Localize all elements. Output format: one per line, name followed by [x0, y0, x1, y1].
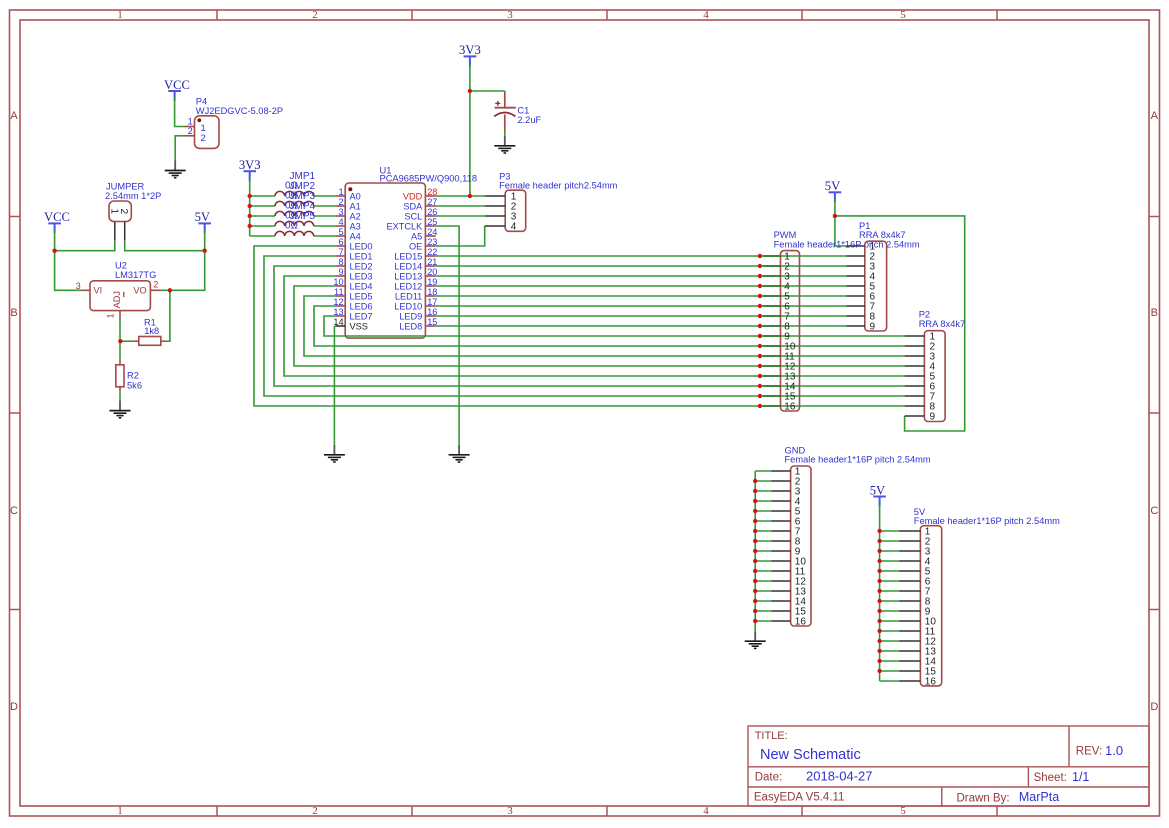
svg-text:LED9: LED9	[399, 312, 422, 322]
svg-text:EasyEDA V5.4.11: EasyEDA V5.4.11	[754, 792, 845, 804]
wire VCC to P4 pin 1	[175, 98, 185, 127]
junction node 5V bus	[877, 549, 881, 553]
junction node ADJ/R1/R2	[118, 339, 122, 343]
junction node GND bus	[753, 549, 757, 553]
svg-text:2.54mm 1*2P: 2.54mm 1*2P	[105, 191, 161, 201]
ground (GND header)	[745, 631, 766, 648]
svg-text:2: 2	[188, 126, 193, 136]
junction node PWM pin	[758, 384, 762, 388]
IC U1 PCA9685PW/Q900,118	[345, 166, 477, 339]
junction node GND bus	[753, 589, 757, 593]
junction node GND bus	[753, 519, 757, 523]
junction node GND bus	[753, 619, 757, 623]
svg-text:P2: P2	[919, 310, 930, 320]
wire VCC down to U2 VI	[55, 251, 82, 291]
U1 pin 23 OE	[409, 237, 437, 252]
wire 3V3 tap to C1	[470, 90, 505, 92]
junction node 5V bus	[877, 609, 881, 613]
inductor jumper JMP2 0 ohm	[275, 181, 316, 206]
junction node 5V bus	[877, 589, 881, 593]
wire LED12 to PWM 4 / P1 5	[436, 285, 847, 287]
svg-text:VCC: VCC	[44, 210, 70, 224]
junction node PWM pin	[758, 274, 762, 278]
svg-text:VO: VO	[133, 286, 146, 296]
ground (C1)	[494, 136, 515, 153]
ground (EXTCLK)	[449, 445, 470, 462]
U1 pin 19 LED12	[394, 277, 437, 292]
capacitor C1 2.2uF	[494, 91, 541, 131]
inductor jumper JMP4 0 ohm	[275, 201, 316, 226]
regulator U2 LM317TG	[76, 261, 161, 321]
junction node GND bus	[753, 579, 757, 583]
svg-text:2: 2	[312, 9, 318, 21]
U1 pin 25 EXTCLK	[387, 217, 438, 232]
wire C1 to ground	[504, 131, 506, 136]
U1 pin 1 A0	[335, 187, 361, 202]
svg-text:LED8: LED8	[399, 322, 422, 332]
U1 pin 4 A3	[335, 217, 361, 232]
svg-text:2: 2	[312, 805, 318, 817]
svg-text:4: 4	[703, 805, 709, 817]
U1 pin 6 LED0	[335, 237, 372, 252]
junction node GND bus	[753, 599, 757, 603]
U1 pin 22 LED15	[394, 247, 437, 262]
svg-text:5V: 5V	[825, 179, 840, 193]
svg-text:VI: VI	[94, 286, 103, 296]
svg-text:B: B	[1151, 307, 1158, 319]
U1 pin 9 LED3	[335, 267, 372, 282]
svg-text:Drawn By:: Drawn By:	[957, 792, 1010, 804]
U1 pin 3 A2	[335, 207, 361, 222]
junction node PWM pin	[758, 324, 762, 328]
svg-text:C: C	[1150, 505, 1158, 517]
wire 3V3 rail down to VDD	[469, 63, 471, 196]
svg-text:New Schematic: New Schematic	[760, 747, 861, 763]
U1 pin 28 VDD	[403, 187, 438, 202]
svg-text:5k6: 5k6	[127, 381, 142, 391]
junction node PWM pin	[758, 374, 762, 378]
svg-text:1: 1	[338, 187, 343, 197]
svg-text:16: 16	[795, 617, 807, 628]
resistor R1 1k8	[134, 317, 166, 345]
svg-text:6: 6	[338, 237, 343, 247]
U1 pin 12 LED6	[333, 297, 372, 312]
junction node 5V bus	[877, 669, 881, 673]
U1 pin 8 LED2	[335, 257, 372, 272]
wire VSS to ground	[333, 326, 335, 445]
U1 pin 24 A5	[411, 227, 437, 242]
svg-text:9: 9	[338, 267, 343, 277]
svg-text:RRA 8x4k7: RRA 8x4k7	[859, 230, 906, 240]
junction node PWM pin	[758, 334, 762, 338]
junction node C1 tap	[468, 89, 472, 93]
junction node PWM pin	[758, 344, 762, 348]
U1 pin 21 LED14	[394, 257, 437, 272]
wire OE to P3 pin4	[436, 226, 485, 246]
junction node PWM pin	[758, 394, 762, 398]
svg-text:Sheet:: Sheet:	[1034, 772, 1067, 784]
svg-text:VCC: VCC	[164, 78, 190, 92]
svg-text:3V3: 3V3	[459, 43, 481, 57]
junction node 3V3 row	[248, 204, 252, 208]
svg-text:D: D	[10, 701, 18, 713]
svg-text:1: 1	[106, 313, 116, 318]
svg-text:A3: A3	[350, 222, 361, 232]
U1 pin 13 LED7	[333, 307, 372, 322]
junction node 5V bus	[877, 559, 881, 563]
junction node GND bus	[753, 609, 757, 613]
svg-text:MarPta: MarPta	[1019, 790, 1059, 804]
svg-text:24: 24	[427, 227, 437, 237]
U1 pin 20 LED13	[394, 267, 437, 282]
svg-text:U2: U2	[115, 261, 127, 271]
svg-text:WJ2EDGVC-5.08-2P: WJ2EDGVC-5.08-2P	[196, 106, 283, 116]
svg-text:8: 8	[338, 257, 343, 267]
svg-text:EXTCLK: EXTCLK	[387, 222, 424, 232]
svg-text:OE: OE	[409, 242, 422, 252]
connector P3 female header 4P	[485, 171, 618, 232]
wire LED5 loop to PWM 11 / P2 3	[304, 296, 905, 356]
ground (P4)	[165, 161, 186, 178]
svg-text:16: 16	[925, 677, 937, 688]
wire 3V3 row to JMP3	[250, 215, 336, 217]
jumper JMP 2.54mm 1*2P	[105, 181, 161, 240]
svg-text:16: 16	[784, 402, 796, 413]
svg-text:0Ω: 0Ω	[285, 221, 299, 232]
U1 pin 27 SDA	[403, 197, 437, 212]
wire LED15 to PWM 1 / P1 2	[436, 255, 847, 257]
svg-text:11: 11	[334, 287, 344, 297]
U1 pin 17 LED10	[394, 297, 437, 312]
junction node 5V bus	[877, 619, 881, 623]
net flag 3V3 (top)	[459, 43, 481, 66]
svg-text:2018-04-27: 2018-04-27	[806, 769, 873, 784]
svg-text:2: 2	[201, 133, 206, 144]
svg-text:LED4: LED4	[350, 282, 373, 292]
connector PWM female header 16P	[763, 230, 920, 412]
connector 5V female header 16P	[899, 507, 1060, 688]
wire R2 to ground	[119, 392, 121, 401]
wire SCL to P3 pin3	[436, 215, 485, 217]
svg-text:JUMPER: JUMPER	[106, 181, 145, 191]
svg-text:Date:: Date:	[755, 772, 783, 784]
svg-text:VDD: VDD	[403, 192, 423, 202]
svg-text:1: 1	[108, 209, 119, 215]
wire 3V3 to jumper rows	[249, 178, 251, 236]
junction node 3V3 row	[248, 194, 252, 198]
junction node GND bus	[753, 539, 757, 543]
junction node 5V bus	[877, 629, 881, 633]
junction node VCC bus	[52, 249, 56, 253]
ground (VSS)	[324, 445, 345, 462]
junction node 5V bus	[877, 649, 881, 653]
svg-text:D: D	[1150, 701, 1158, 713]
svg-text:9: 9	[930, 412, 936, 423]
connector GND female header 16P	[771, 446, 931, 628]
junction node 5V bus	[877, 539, 881, 543]
svg-text:A5: A5	[411, 232, 422, 242]
wire LED7 loop to PWM 9 / P2 1	[324, 316, 905, 336]
svg-text:A: A	[1151, 110, 1159, 122]
svg-text:LED1: LED1	[350, 252, 373, 262]
wire LED10 to PWM 6 / P1 7	[436, 305, 847, 307]
wire 5V loop to P2 pin9	[835, 216, 965, 431]
junction node PWM pin	[758, 364, 762, 368]
svg-text:2: 2	[338, 197, 343, 207]
svg-text:SDA: SDA	[403, 202, 423, 212]
svg-text:LED5: LED5	[350, 292, 373, 302]
junction node GND bus	[753, 559, 757, 563]
junction node VDD	[468, 194, 472, 198]
U1 pin 2 A1	[335, 197, 361, 212]
svg-text:4: 4	[511, 222, 517, 233]
wire LED14 to PWM 2 / P1 3	[436, 265, 847, 267]
junction node GND bus	[753, 529, 757, 533]
svg-text:9: 9	[870, 322, 876, 333]
svg-text:A4: A4	[350, 232, 361, 242]
wire 5V bus to jumper pin2	[125, 231, 205, 251]
svg-text:5: 5	[900, 9, 906, 21]
junction node PWM pin	[758, 254, 762, 258]
svg-text:A0: A0	[350, 192, 361, 202]
junction node VO	[168, 288, 172, 292]
svg-text:RRA 8x4k7: RRA 8x4k7	[919, 319, 966, 329]
svg-text:LED11: LED11	[395, 292, 422, 302]
inductor jumper JMP1 0 ohm	[275, 171, 316, 196]
wire 3V3 row to JMP4	[250, 225, 336, 227]
wire LED0 loop to PWM 16 / P2 8	[254, 246, 905, 406]
svg-text:1/1: 1/1	[1072, 770, 1089, 784]
junction node GND bus	[753, 489, 757, 493]
U1 pin 11 LED5	[334, 287, 372, 302]
svg-text:5: 5	[338, 227, 343, 237]
svg-text:2: 2	[118, 209, 129, 215]
junction node GND bus	[753, 569, 757, 573]
U1 pin 10 LED4	[333, 277, 372, 292]
svg-text:LED15: LED15	[394, 252, 422, 262]
net flag VCC (top)	[164, 78, 190, 101]
wire LED9 to PWM 7 / P1 8	[436, 315, 847, 317]
wire GND header bus	[755, 471, 771, 631]
inductor jumper JMP5 0 ohm	[275, 211, 316, 236]
U1 pin 14 VSS	[333, 317, 368, 332]
svg-text:5V: 5V	[195, 210, 210, 224]
svg-text:3: 3	[76, 281, 81, 291]
junction node 5V bus	[203, 249, 207, 253]
wire LED4 loop to PWM 12 / P2 4	[294, 286, 905, 366]
wire 5V to P1 pin1	[835, 199, 847, 246]
wire 5V down to U2 VO	[161, 251, 205, 291]
junction node 3V3 row	[248, 224, 252, 228]
wire LED1 loop to PWM 15 / P2 7	[264, 256, 905, 396]
wire 3V3 row to JMP2	[250, 205, 336, 207]
U1 pin 16 LED9	[399, 307, 437, 322]
resistor array P2 RRA 8x4k7	[905, 310, 966, 423]
U1 pin 5 A4	[335, 227, 361, 242]
svg-text:3: 3	[507, 9, 513, 21]
svg-text:4: 4	[703, 9, 709, 21]
wire LED2 loop to PWM 14 / P2 6	[274, 266, 905, 386]
wire VCC bus to jumper pin1	[55, 231, 115, 251]
svg-text:1.0: 1.0	[1105, 743, 1123, 758]
svg-text:REV:: REV:	[1076, 746, 1102, 758]
svg-text:A2: A2	[350, 212, 361, 222]
svg-text:P4: P4	[196, 97, 207, 107]
svg-text:LED2: LED2	[350, 262, 373, 272]
svg-text:LED10: LED10	[394, 302, 422, 312]
junction node 5V/P1	[833, 214, 837, 218]
junction node 5V bus	[877, 569, 881, 573]
wire VDD to P3 pin1	[436, 195, 485, 197]
net flag 5V (left)	[195, 210, 211, 233]
svg-text:2.2uF: 2.2uF	[517, 115, 541, 125]
svg-text:3: 3	[338, 207, 343, 217]
svg-text:LED7: LED7	[350, 312, 373, 322]
junction node GND bus	[753, 509, 757, 513]
svg-text:3V3: 3V3	[239, 158, 261, 172]
svg-text:VSS: VSS	[350, 322, 368, 332]
svg-text:C1: C1	[517, 106, 529, 116]
junction node 5V bus	[877, 579, 881, 583]
wire LED6 loop to PWM 10 / P2 2	[314, 306, 905, 346]
U1 pin 26 SCL	[404, 207, 437, 222]
wire LED13 to PWM 3 / P1 4	[436, 275, 847, 277]
svg-text:LED0: LED0	[350, 242, 373, 252]
svg-text:LED3: LED3	[350, 272, 373, 282]
wire U2 VO junction down to R1	[166, 290, 170, 341]
junction node PWM pin	[758, 294, 762, 298]
svg-text:A: A	[10, 110, 18, 122]
title block	[748, 726, 1149, 806]
junction node PWM pin	[758, 314, 762, 318]
svg-text:1: 1	[117, 9, 123, 21]
svg-text:5: 5	[900, 805, 906, 817]
svg-text:LED6: LED6	[350, 302, 373, 312]
junction node 5V bus	[877, 639, 881, 643]
svg-text:B: B	[10, 307, 17, 319]
junction node PWM pin	[758, 304, 762, 308]
svg-text:7: 7	[338, 247, 343, 257]
wire EXTCLK to ground	[436, 226, 459, 445]
svg-text:LM317TG: LM317TG	[115, 270, 156, 280]
svg-text:ADJ: ADJ	[112, 291, 122, 308]
junction node PWM pin	[758, 404, 762, 408]
junction node PWM pin	[758, 354, 762, 358]
junction node 5V bus	[877, 529, 881, 533]
svg-text:14: 14	[333, 317, 343, 327]
wire P4 pin 2 to ground	[175, 136, 184, 161]
junction node PWM pin	[758, 264, 762, 268]
wire 3V3 row to JMP1	[250, 195, 336, 197]
svg-text:C: C	[10, 505, 18, 517]
junction node 5V bus	[877, 659, 881, 663]
svg-text:R2: R2	[127, 371, 139, 381]
junction node 5V bus	[877, 599, 881, 603]
wire 5V header bus	[880, 504, 900, 682]
wire LED8 to PWM 8 / P1 9	[436, 325, 847, 327]
svg-text:Female header1*16P pitch 2.54m: Female header1*16P pitch 2.54mm	[914, 516, 1060, 526]
resistor R2 5k6	[116, 360, 142, 392]
wire ADJ vertical	[120, 321, 134, 360]
svg-text:Female header1*16P pitch 2.54m: Female header1*16P pitch 2.54mm	[785, 455, 931, 465]
svg-text:LED13: LED13	[394, 272, 422, 282]
svg-text:2: 2	[153, 280, 158, 290]
resistor array P1 RRA 8x4k7	[847, 221, 906, 333]
svg-text:A1: A1	[350, 202, 361, 212]
net flag 3V3 (left)	[239, 158, 261, 181]
junction node PWM pin	[758, 284, 762, 288]
svg-text:SCL: SCL	[404, 212, 422, 222]
svg-text:1: 1	[117, 805, 123, 817]
U1 pin 18 LED11	[395, 287, 438, 302]
net flag 5V (P1)	[825, 179, 841, 202]
svg-text:5V: 5V	[870, 483, 885, 497]
junction node GND bus	[753, 499, 757, 503]
inductor jumper JMP3 0 ohm	[275, 191, 316, 216]
svg-text:LED14: LED14	[394, 262, 422, 272]
net flag VCC (left)	[44, 210, 70, 233]
wire 3V3 row to JMP5	[250, 235, 336, 237]
svg-text:4: 4	[338, 217, 343, 227]
U1 pin 15 LED8	[399, 317, 437, 332]
svg-text:1k8: 1k8	[144, 326, 159, 336]
net flag 5V (header)	[870, 483, 886, 506]
junction node GND bus	[753, 479, 757, 483]
svg-text:Female header1*16P pitch 2.54m: Female header1*16P pitch 2.54mm	[774, 239, 920, 249]
svg-text:PCA9685PW/Q900,118: PCA9685PW/Q900,118	[380, 173, 478, 183]
ground (R2)	[110, 401, 131, 418]
svg-text:LED12: LED12	[394, 282, 422, 292]
svg-text:Female header pitch2.54mm: Female header pitch2.54mm	[499, 180, 618, 190]
wire SDA to P3 pin2	[436, 205, 485, 207]
wire LED11 to PWM 5 / P1 6	[436, 295, 847, 297]
svg-text:3: 3	[507, 805, 513, 817]
connector P4 WJ2EDGVC-5.08-2P	[185, 97, 284, 149]
junction node 3V3 row	[248, 214, 252, 218]
U1 pin 7 LED1	[335, 247, 372, 262]
wire LED3 loop to PWM 13 / P2 5	[284, 276, 905, 376]
svg-text:TITLE:: TITLE:	[755, 730, 788, 742]
